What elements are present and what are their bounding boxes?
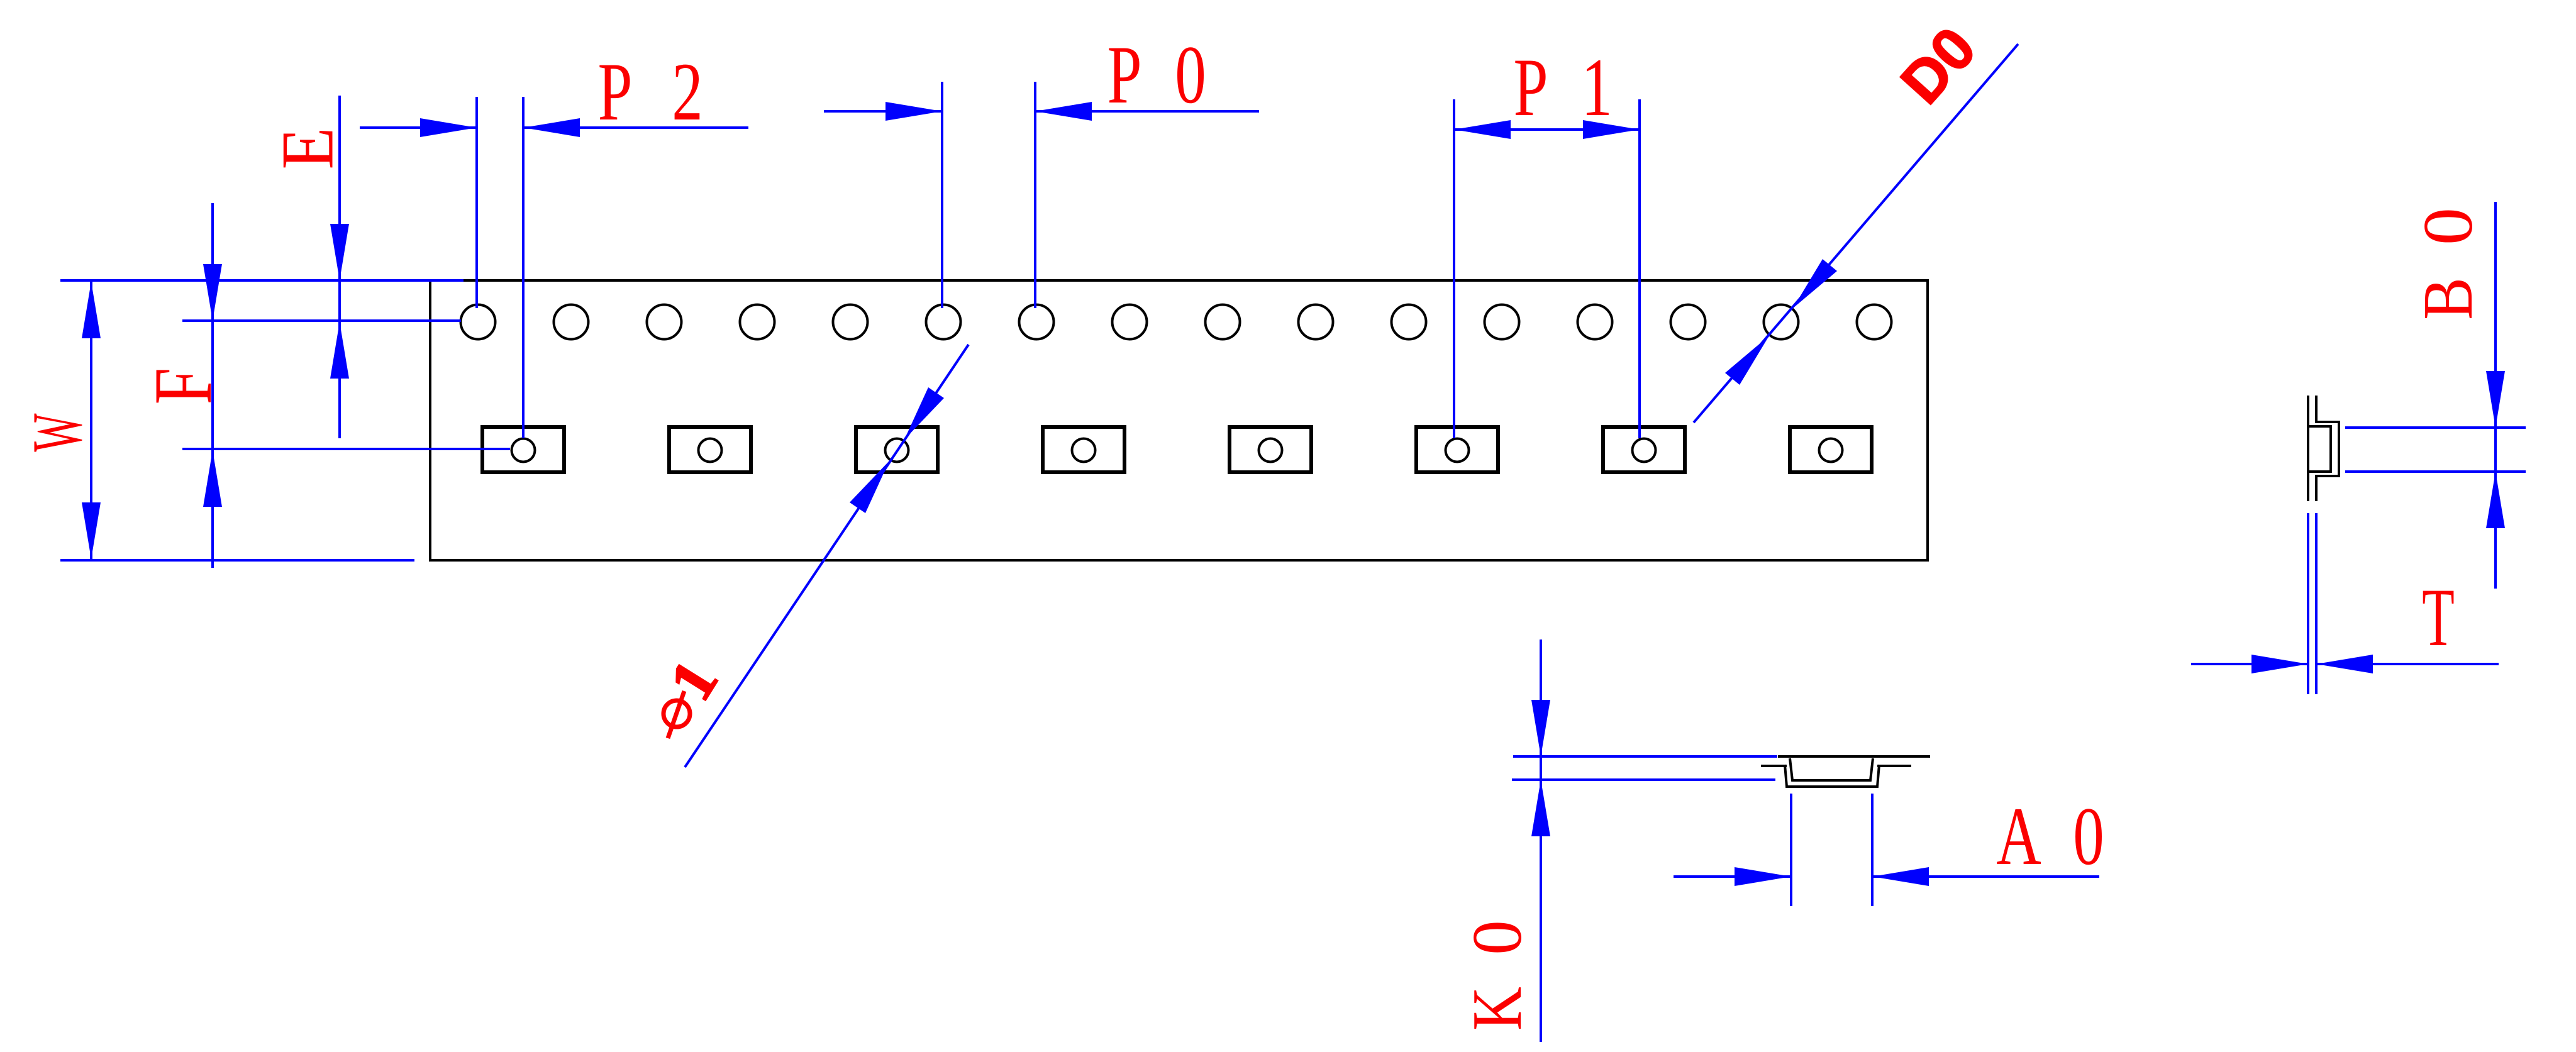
A0 extension line left (1790, 794, 1792, 906)
sprocket hole 13 (1578, 305, 1613, 340)
sprocket hole 15 (1764, 305, 1799, 340)
component pocket 2 (669, 427, 751, 472)
dimension T right arrow line (2316, 663, 2499, 665)
diameter symbol slash (668, 691, 684, 738)
svg-text:P: P (1107, 29, 1141, 121)
cross-section tape underside left (1761, 765, 1787, 767)
pocket center hole 8 (1819, 439, 1843, 462)
sprocket hole 8 (1113, 305, 1147, 340)
side view pocket bump inner line (2309, 426, 2331, 472)
svg-text:T: T (2422, 571, 2455, 663)
T projection line right (2315, 513, 2318, 694)
sprocket hole 10 (1299, 305, 1333, 340)
dimension E arrow to hole line (330, 322, 349, 379)
sprocket hole 14 (1671, 305, 1706, 340)
leader line D0 (1694, 44, 2018, 423)
svg-text:1: 1 (1581, 42, 1612, 133)
leader D0 arrow upper (1793, 259, 1837, 308)
svg-text:W: W (18, 413, 96, 451)
sprocket hole 7 (1019, 305, 1054, 340)
svg-text:0: 0 (1175, 29, 1206, 121)
extension line pocket center (182, 448, 510, 450)
cross-section tape top surface (1778, 755, 1930, 758)
dimension T left arrow line (2191, 663, 2308, 665)
dimension K0 line (1540, 640, 1542, 1042)
dimension F arrow to hole line (203, 264, 222, 321)
svg-text:0: 0 (1458, 920, 1536, 955)
sprocket hole 3 (647, 305, 682, 340)
svg-text:F: F (136, 368, 229, 405)
leader diameter arrow upper (904, 387, 944, 440)
pocket center hole 2 (699, 439, 722, 462)
side view tape inner surface with pocket bump (2316, 396, 2339, 501)
dimension P1 tick right (1638, 99, 1641, 438)
sprocket hole 9 (1206, 305, 1240, 340)
K0 extension line bottom (1512, 778, 1775, 781)
svg-text:0: 0 (2073, 790, 2104, 882)
dimension F arrow to pocket line (203, 450, 222, 507)
cross-section pocket outer wall (1785, 765, 1879, 787)
dimension A0 right arrow line (1872, 875, 2099, 878)
dimension W arrow down (82, 502, 101, 559)
extension line tape bottom edge (60, 559, 414, 562)
sprocket hole 1 (461, 305, 496, 340)
dimension P2 tick at sprocket hole (475, 97, 478, 308)
cross-section pocket inner wall (1790, 758, 1873, 780)
sprocket hole 16 (1857, 305, 1892, 340)
B0 extension line bottom (2345, 470, 2526, 473)
pocket center hole 7 (1633, 439, 1656, 462)
dimension P2 left arrow line (360, 126, 477, 129)
extension line sprocket hole center (182, 319, 461, 322)
dimension W arrow up (82, 282, 101, 338)
component pocket 5 (1230, 427, 1311, 472)
component pocket 8 (1790, 427, 1872, 472)
A0 extension line right (1871, 794, 1874, 906)
svg-text:P: P (1513, 42, 1548, 133)
carrier tape outline (430, 280, 1928, 560)
cross-section tape underside right (1877, 765, 1911, 767)
svg-text:E: E (265, 128, 348, 170)
component pocket 1 (482, 427, 564, 472)
svg-text:K: K (1458, 987, 1536, 1031)
component pocket 6 (1416, 427, 1498, 472)
dimension P0 tick left (941, 82, 943, 308)
svg-text:2: 2 (672, 46, 702, 138)
pocket center hole 4 (1072, 439, 1096, 462)
label diameter 1 (663, 700, 690, 727)
pocket center hole 1 (512, 439, 535, 462)
dimension F line (211, 203, 214, 568)
pocket center hole 5 (1259, 439, 1282, 462)
component pocket 3 (856, 427, 938, 472)
dimension E line (338, 96, 341, 438)
svg-text:0: 0 (2409, 208, 2487, 245)
side view tape outer surface (2307, 396, 2309, 501)
svg-text:D0: D0 (1888, 15, 1989, 116)
svg-text:B: B (2409, 277, 2487, 320)
dimension P2 tick at pocket center (522, 97, 525, 438)
B0 extension line top (2345, 426, 2526, 429)
extension line tape top edge (60, 279, 464, 282)
svg-text:P: P (597, 46, 632, 138)
dimension W line (90, 280, 92, 560)
dimension P2 right arrow line (523, 126, 748, 129)
svg-text:A: A (1996, 790, 2041, 882)
pocket center hole 3 (885, 439, 909, 462)
dimension A0 left arrow line (1674, 875, 1791, 878)
component pocket 4 (1043, 427, 1124, 472)
sprocket hole 6 (926, 305, 961, 340)
leader line diameter 1 (685, 345, 969, 767)
sprocket hole 12 (1485, 305, 1519, 340)
sprocket hole 2 (554, 305, 589, 340)
component pocket 7 (1603, 427, 1685, 472)
pocket center hole 6 (1446, 439, 1469, 462)
sprocket hole 4 (740, 305, 775, 340)
dimension P0 left arrow line (824, 110, 942, 113)
dimension E arrow to tape edge (330, 224, 349, 280)
dimension B0 line (2494, 202, 2497, 589)
dimension P0 right arrow line (1035, 110, 1259, 113)
K0 extension line top (1513, 755, 1777, 758)
sprocket hole 11 (1392, 305, 1426, 340)
leader D0 arrow lower (1725, 336, 1769, 385)
dimension P1 tick left (1453, 99, 1455, 438)
T projection line left (2307, 513, 2309, 694)
dimension P1 arrow line (1454, 128, 1640, 131)
sprocket hole 5 (833, 305, 868, 340)
dimension P0 tick right (1034, 82, 1036, 308)
leader diameter arrow lower (850, 461, 889, 513)
